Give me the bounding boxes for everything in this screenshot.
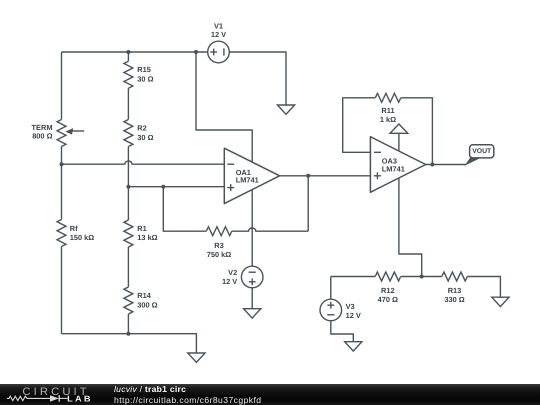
flag VOUT <box>466 158 480 165</box>
OA1 V- pin to V2 <box>251 190 253 266</box>
CircuitLab logo <box>0 384 110 405</box>
wire V3 bottom to ground <box>331 321 354 342</box>
wire R12 right to junction <box>401 276 442 278</box>
ground below V2 <box>244 309 261 318</box>
resistor R11 1k <box>375 93 401 102</box>
svg-text:300 Ω: 300 Ω <box>137 300 157 309</box>
op-amp OA3 LM741 <box>370 137 425 193</box>
node R2-R1 column / noninverting wire junction <box>126 185 130 189</box>
node bus/R14 junction <box>126 332 130 336</box>
wire Rf bottom to bottom bus <box>61 247 63 334</box>
svg-text:800 Ω: 800 Ω <box>32 132 52 141</box>
svg-text:12 V: 12 V <box>222 277 237 286</box>
resistor R15 30 <box>127 52 129 61</box>
wire noninverting input <box>128 186 224 188</box>
wire R14 bottom to bus <box>127 314 129 334</box>
svg-text:VOUT: VOUT <box>472 148 492 155</box>
wire R2 bottom through to R1 <box>127 147 129 221</box>
svg-text:330 Ω: 330 Ω <box>444 295 464 304</box>
ground right of R13 <box>492 297 509 306</box>
resistor R14 300 <box>124 287 133 314</box>
resistor Rf 150k <box>57 220 66 247</box>
node TERM/Rf/inverting-input junction <box>60 162 64 166</box>
svg-text:30 Ω: 30 Ω <box>137 74 153 83</box>
svg-text:1 kΩ: 1 kΩ <box>380 115 396 124</box>
svg-text:470 Ω: 470 Ω <box>378 295 398 304</box>
op-amp OA1 LM741 <box>224 148 279 203</box>
wire TERM bottom to Rf top <box>61 147 63 220</box>
node OA3 output/feedback junction <box>430 163 434 167</box>
svg-text:12 V: 12 V <box>346 311 361 320</box>
voltage source V2 <box>241 266 263 288</box>
OA3 V- route to R12/R13 junction <box>399 178 422 276</box>
wire V3 top to R12 left <box>330 277 332 300</box>
svg-text:LM741: LM741 <box>236 176 259 185</box>
TERM wiper arrow <box>70 130 84 132</box>
resistor R12 470 <box>375 272 401 281</box>
svg-text:R1: R1 <box>137 224 146 233</box>
OA3 V+ power arrow <box>398 133 400 151</box>
wire V2 to ground <box>251 288 253 309</box>
wire TERM column top lead <box>61 52 63 120</box>
svg-text:V2: V2 <box>228 268 237 277</box>
node R12/R13/V- junction <box>420 275 424 279</box>
svg-text:R13: R13 <box>448 286 462 295</box>
svg-text:150 kΩ: 150 kΩ <box>70 233 94 242</box>
wire inverting input (hops over R2 column) <box>62 161 225 164</box>
resistor R1 13k <box>124 220 133 247</box>
svg-text:Rf: Rf <box>70 224 78 233</box>
svg-text:13 kΩ: 13 kΩ <box>137 233 157 242</box>
resistor R3 750k <box>206 227 232 236</box>
node junction top wire / V+ branch <box>194 50 198 54</box>
wire OA3 feedback: minus input <box>343 98 376 153</box>
wire top bus from TERM top to V1 left <box>62 51 208 53</box>
svg-text:R11: R11 <box>381 106 394 115</box>
footer bar <box>0 384 540 405</box>
svg-text:12 V: 12 V <box>211 30 226 39</box>
ground top-right below V1 <box>277 105 294 114</box>
voltage source V1 <box>208 41 230 63</box>
wire R11 right to output <box>401 98 433 165</box>
svg-text:V3: V3 <box>346 302 355 311</box>
wire R3 left branch <box>163 187 206 232</box>
node OA1 output junction <box>306 174 310 178</box>
svg-text:R14: R14 <box>137 291 151 300</box>
svg-text:LAB: LAB <box>67 393 93 403</box>
svg-text:LM741: LM741 <box>382 164 405 173</box>
voltage source V3 <box>320 299 342 321</box>
OA3 output wire <box>426 164 466 166</box>
wire R13 right to ground <box>467 277 500 298</box>
ground below V3 <box>345 342 362 351</box>
svg-text:R3: R3 <box>214 241 223 250</box>
node junction top wire / R15 column <box>126 50 130 54</box>
svg-text:R2: R2 <box>137 124 146 133</box>
ground bottom bus <box>188 353 205 362</box>
wire R15 to R2 <box>127 88 129 119</box>
bottom bus wire <box>62 334 197 353</box>
wire R3 right to OA1 output (hops over V- supply) <box>232 228 308 231</box>
node R3 tap junction <box>161 185 165 189</box>
svg-text:R12: R12 <box>381 286 395 295</box>
svg-text:R15: R15 <box>137 65 151 74</box>
wire R3 up to output junction <box>307 176 309 231</box>
resistor R2 30 <box>124 120 133 147</box>
svg-text:750 kΩ: 750 kΩ <box>207 250 231 259</box>
wire V+ supply route to OA1 top <box>196 52 252 162</box>
svg-text:30 Ω: 30 Ω <box>137 133 153 142</box>
wire R1 to R14 <box>127 247 129 287</box>
svg-text:TERM: TERM <box>32 123 53 132</box>
wire V1 right to ground corner <box>229 52 286 105</box>
wire OA1 output to OA3 + input <box>280 175 371 177</box>
potentiometer TERM 800 <box>57 120 66 147</box>
resistor R13 330 <box>442 272 468 281</box>
